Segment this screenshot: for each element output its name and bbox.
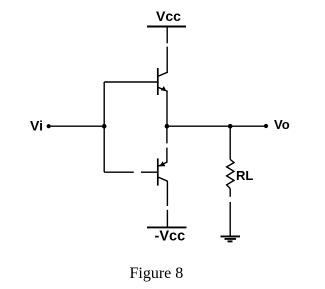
wire Q2 base lead (right segment) [141,171,157,173]
transistor Q2 (PNP) [158,158,168,185]
wire output node down to RL [229,126,231,159]
terminal Vo [264,124,268,128]
svg-text:Vo: Vo [274,117,290,132]
node output junction [165,124,170,129]
svg-text:Vcc: Vcc [156,8,181,24]
wire RL to ground (lower segment) [229,202,231,236]
wire Q2 collector to -Vcc rail (lower segment) [166,210,168,228]
wire output node down to Q2 emitter (upper segment) [166,126,168,143]
wire output node down to Q2 emitter (lower segment) [166,148,168,163]
resistor RL [227,159,234,188]
wire Vcc rail to Q1 collector (upper segment) [166,27,168,44]
wire Q2 base lead (left segment) [104,171,134,173]
ground [221,236,241,241]
transistor Q1 (NPN) [158,68,168,95]
svg-text:-Vcc: -Vcc [155,229,186,245]
wire Q2 collector to -Vcc rail (upper segment) [166,181,168,206]
Vcc rail [147,26,186,28]
svg-text:Figure 8: Figure 8 [130,265,184,282]
wire Q1 base lead [104,81,157,83]
node RL tap junction [228,124,233,129]
terminal Vi [47,124,51,128]
node Vi junction [102,124,107,129]
wire Vi lead [49,125,104,127]
-Vcc rail [147,226,187,228]
wire RL to ground (upper segment) [229,189,231,197]
wire Vcc rail to Q1 collector (lower segment) [166,47,168,73]
wire output node to Vo terminal [167,125,266,127]
wire Q1 emitter down to output node [166,91,168,126]
svg-text:RL: RL [236,168,253,183]
svg-text:Vi: Vi [30,118,43,134]
wire base bus vertical [103,82,105,172]
